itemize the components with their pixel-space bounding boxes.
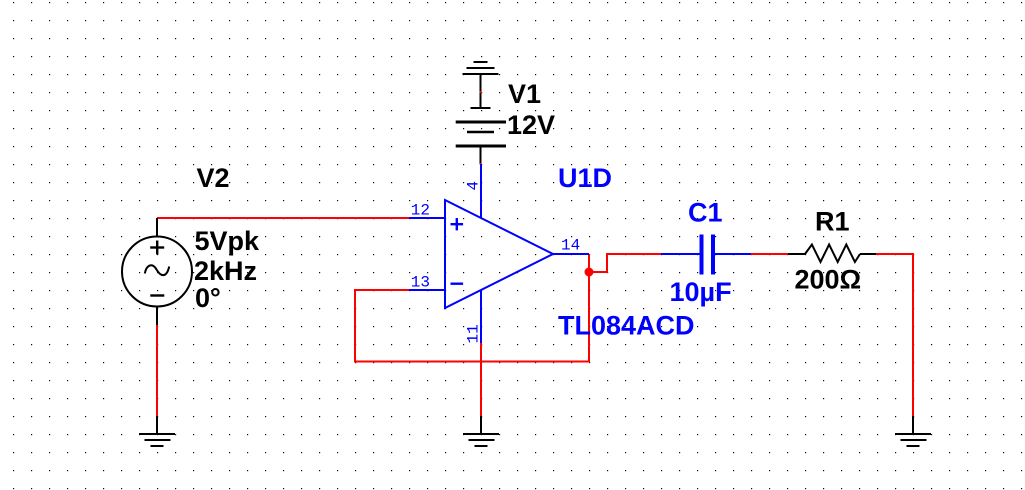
op-amp pin 14 (553, 253, 589, 255)
wire (876, 254, 913, 416)
svg-text:V2: V2 (197, 163, 230, 193)
svg-text:U1D: U1D (558, 163, 612, 193)
wire (588, 254, 590, 363)
resistor R1 (788, 245, 876, 263)
ground (bottom middle) (463, 416, 499, 446)
op-amp pin 4 (480, 164, 482, 218)
svg-text:12: 12 (411, 202, 430, 220)
svg-text:14: 14 (561, 237, 580, 255)
ground (bottom left) (139, 416, 175, 446)
op-amp pin 13 (409, 289, 445, 291)
wire (157, 217, 410, 219)
svg-text:11: 11 (465, 324, 483, 343)
ground (bottom right) (895, 416, 931, 446)
op-amp pin 11 (480, 290, 482, 343)
svg-text:0°: 0° (195, 283, 221, 313)
wire (751, 253, 788, 255)
svg-text:V1: V1 (508, 79, 541, 109)
op-amp U1D (445, 200, 553, 308)
ground (top, at V1) (463, 62, 499, 91)
svg-text:10µF: 10µF (670, 277, 732, 307)
AC source V2 (122, 218, 192, 325)
capacitor C1 (661, 235, 751, 275)
wire (480, 343, 482, 416)
battery V1 (456, 91, 506, 164)
svg-text:R1: R1 (815, 207, 850, 237)
wire (589, 254, 661, 272)
svg-text:5Vpk: 5Vpk (195, 226, 261, 256)
connection point (480, 163, 482, 165)
connection point (480, 91, 482, 93)
svg-text:TL084ACD: TL084ACD (558, 311, 695, 341)
svg-text:200Ω: 200Ω (795, 265, 862, 295)
svg-text:4: 4 (465, 181, 483, 191)
svg-text:2kHz: 2kHz (194, 256, 257, 286)
wire (355, 290, 589, 362)
wire (156, 325, 158, 416)
junction dot (585, 268, 594, 277)
svg-text:13: 13 (411, 274, 430, 292)
op-amp pin 12 (409, 217, 445, 219)
svg-text:12V: 12V (507, 110, 555, 140)
svg-text:C1: C1 (688, 198, 723, 228)
